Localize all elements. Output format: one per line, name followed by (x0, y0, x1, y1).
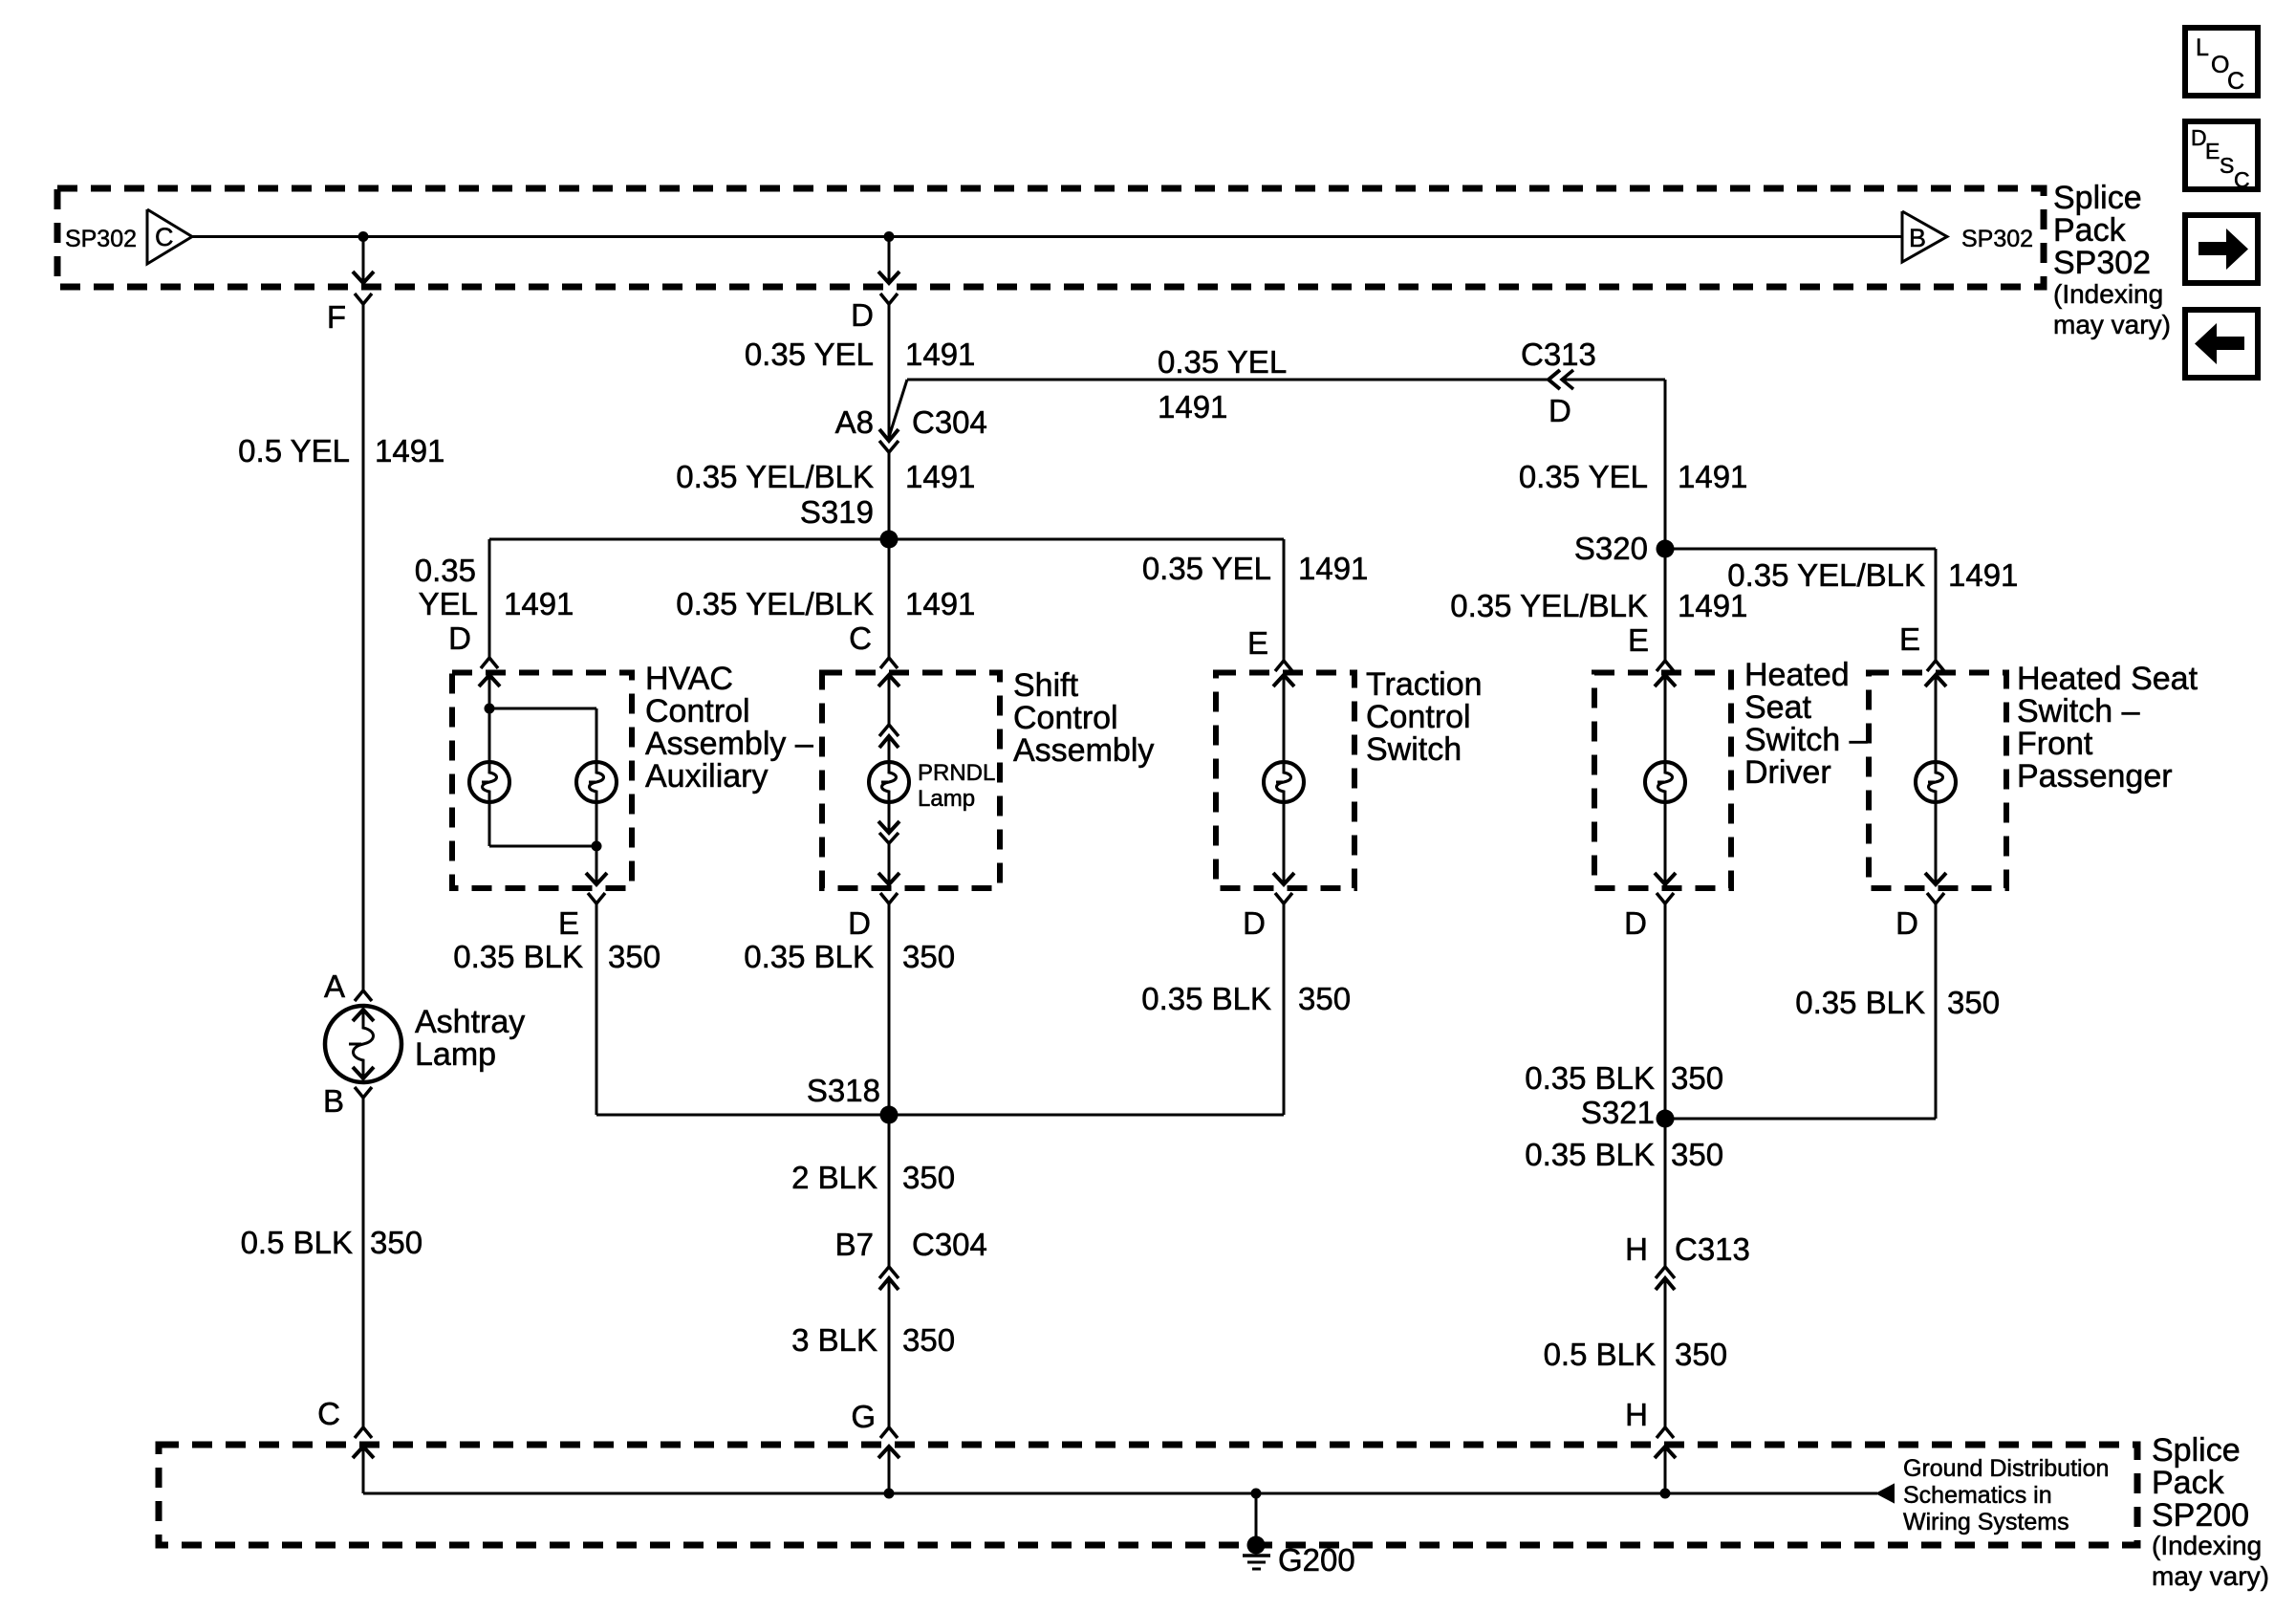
label 0.35 YEL 1491 HVAC (415, 553, 574, 621)
svg-text:1491: 1491 (905, 459, 975, 494)
node bus G200 junction (1251, 1489, 1262, 1499)
wire HVAC bottom bridge (489, 845, 596, 848)
svg-text:0.35 YEL/BLK: 0.35 YEL/BLK (676, 586, 874, 621)
svg-text:1491: 1491 (905, 337, 975, 372)
wire S320 to passenger (1665, 549, 1936, 661)
label 0.35 YEL 1491 traction (1142, 551, 1369, 586)
svg-text:0.35 BLK: 0.35 BLK (1525, 1060, 1655, 1096)
wire passenger D to S321 (1665, 903, 1936, 1119)
svg-text:Assembly: Assembly (1013, 732, 1154, 769)
pin D of SP302 (851, 294, 898, 333)
svg-text:Splice: Splice (2053, 180, 2142, 216)
label 0.35 YEL/BLK 1491 driver (1450, 588, 1747, 623)
svg-text:0.5 YEL: 0.5 YEL (238, 433, 350, 468)
wire SP302 stub to pin D (878, 236, 899, 283)
svg-text:350: 350 (1671, 1060, 1723, 1096)
svg-text:1491: 1491 (1298, 551, 1368, 586)
svg-text:D: D (851, 297, 874, 333)
svg-text:D: D (1549, 393, 1571, 428)
svg-text:G: G (851, 1399, 876, 1434)
svg-text:E: E (1247, 625, 1268, 661)
pin E of heated seat driver (1628, 622, 1674, 671)
svg-text:0.5 BLK: 0.5 BLK (241, 1225, 353, 1260)
svg-text:350: 350 (1947, 985, 2000, 1020)
svg-text:S318: S318 (807, 1073, 880, 1108)
svg-text:0.35 BLK: 0.35 BLK (1141, 981, 1271, 1016)
wire F 0.5 YEL 1491 (362, 304, 365, 991)
pin D of traction switch (1243, 893, 1292, 941)
label Heated Seat Switch - Driver (1744, 657, 1868, 791)
wire S321 0.35 BLK 350 (1664, 1119, 1667, 1267)
pin A of ashtray lamp (324, 969, 372, 1004)
wire SP200 stub H (1655, 1447, 1676, 1493)
splice S318 (807, 1073, 899, 1124)
splice pack SP200 dashed box (159, 1445, 2137, 1545)
node bus H junction (1660, 1489, 1671, 1499)
label 0.35 BLK 350 traction (1141, 981, 1351, 1016)
svg-text:A8: A8 (835, 404, 874, 440)
wire S320 drop 0.35 YEL 1491 (1664, 380, 1667, 549)
svg-text:B: B (323, 1083, 344, 1119)
wire S319 to HVAC D (488, 539, 491, 658)
wire S319 to traction E (1283, 539, 1286, 661)
lamp traction switch (1264, 675, 1304, 884)
svg-text:350: 350 (1675, 1337, 1727, 1372)
label 0.35 BLK 350 shift (744, 939, 955, 974)
label Heated Seat Switch - Front Passenger (2017, 661, 2199, 795)
svg-text:350: 350 (902, 1322, 955, 1358)
svg-text:Switch –: Switch – (1744, 722, 1868, 758)
node HVAC split (485, 704, 495, 714)
svg-text:D: D (448, 620, 471, 656)
wire SP200 stub C (353, 1447, 374, 1493)
wire HVAC top bridge (489, 708, 596, 710)
svg-text:S320: S320 (1574, 531, 1648, 566)
inline connector H C313 (1625, 1231, 1750, 1290)
svg-text:Auxiliary: Auxiliary (645, 758, 768, 795)
pin E of traction switch (1247, 625, 1292, 671)
wire shift D 0.35 BLK 350 (888, 903, 891, 1115)
node bus tap F (358, 231, 369, 242)
svg-text:0.35 YEL: 0.35 YEL (1519, 459, 1648, 494)
svg-text:C: C (2234, 167, 2250, 192)
wire S319 to shift C (888, 539, 891, 658)
svg-text:0.35 BLK: 0.35 BLK (744, 939, 874, 974)
svg-text:1491: 1491 (504, 586, 574, 621)
svg-text:E: E (1628, 622, 1649, 658)
wire branch C313 to S320 (1562, 380, 1665, 549)
arrow to ground distribution (1877, 1485, 1894, 1502)
label 0.35 YEL/BLK 1491 below S319 (676, 586, 975, 621)
inline connector shift lower (879, 833, 899, 843)
pin D of HVAC (448, 620, 498, 668)
svg-text:1491: 1491 (1948, 557, 2018, 593)
svg-text:Pack: Pack (2053, 212, 2127, 249)
svg-text:Splice: Splice (2152, 1432, 2241, 1469)
svg-text:Driver: Driver (1744, 754, 1831, 791)
wire D 0.35 YEL 1491 upper (888, 304, 891, 441)
svg-text:D: D (1243, 905, 1266, 941)
icon box back arrow (2185, 310, 2258, 378)
svg-text:C313: C313 (1675, 1231, 1750, 1267)
svg-text:Assembly –: Assembly – (645, 726, 813, 762)
wire shift below lamp (878, 802, 899, 833)
svg-text:Ground Distribution: Ground Distribution (1903, 1455, 2109, 1482)
icon box LOC (2185, 28, 2258, 96)
svg-text:SP302: SP302 (65, 226, 137, 252)
svg-text:SP200: SP200 (2152, 1497, 2249, 1534)
node HVAC join (592, 841, 602, 852)
svg-text:350: 350 (1298, 981, 1351, 1016)
svg-text:S: S (2220, 153, 2234, 178)
svg-text:0.5 BLK: 0.5 BLK (1544, 1337, 1656, 1372)
label HVAC Control Assembly - Auxiliary (645, 661, 813, 795)
svg-text:B7: B7 (835, 1227, 874, 1262)
svg-text:Pack: Pack (2152, 1465, 2225, 1501)
wire HVAC exit (586, 846, 607, 884)
pin H of SP200 (1625, 1397, 1674, 1438)
svg-text:Wiring Systems: Wiring Systems (1903, 1509, 2069, 1535)
label Traction Control Switch (1366, 666, 1483, 768)
pin D of heated seat passenger (1895, 893, 1944, 941)
pin D of heated seat driver (1624, 893, 1674, 941)
pin E of HVAC (558, 893, 605, 941)
svg-text:0.35 YEL: 0.35 YEL (1158, 344, 1287, 380)
svg-text:HVAC: HVAC (645, 661, 733, 697)
lamp PRNDL (869, 736, 909, 802)
wire shift entry (878, 675, 899, 725)
label 0.5 BLK 350 H (1544, 1337, 1727, 1372)
svg-text:S321: S321 (1581, 1095, 1655, 1130)
svg-text:C313: C313 (1521, 337, 1596, 372)
pin B of ashtray lamp (323, 1083, 372, 1119)
svg-text:Passenger: Passenger (2017, 758, 2173, 795)
svg-text:Control: Control (645, 693, 750, 729)
svg-text:Heated Seat: Heated Seat (2017, 661, 2199, 697)
label 0.35 BLK 350 HVAC (453, 939, 661, 974)
wire shift exit (878, 843, 899, 884)
svg-text:0.35 YEL: 0.35 YEL (1142, 551, 1271, 586)
svg-text:(Indexing: (Indexing (2152, 1531, 2262, 1560)
pin F of SP302 (327, 294, 372, 335)
svg-text:C: C (317, 1396, 340, 1431)
svg-text:0.35 YEL: 0.35 YEL (745, 337, 874, 372)
wire HVAC entry (479, 675, 500, 708)
svg-text:SP302: SP302 (2053, 245, 2151, 281)
splice S320 (1574, 531, 1675, 566)
svg-text:1491: 1491 (1158, 389, 1227, 425)
svg-text:C: C (849, 620, 872, 656)
wire HVAC E 0.35 BLK 350 (596, 903, 889, 1115)
svg-text:G200: G200 (1278, 1542, 1355, 1578)
wire 3 BLK 350 (888, 1278, 891, 1427)
svg-text:1491: 1491 (1678, 459, 1747, 494)
traction control switch dashed box (1216, 673, 1354, 889)
icon box DESC (2185, 121, 2258, 192)
svg-text:E: E (2205, 139, 2220, 163)
svg-text:H: H (1625, 1231, 1648, 1267)
svg-text:D: D (1624, 905, 1647, 941)
lamp HVAC left (469, 708, 509, 846)
svg-text:0.35 YEL/BLK: 0.35 YEL/BLK (1727, 557, 1925, 593)
svg-text:Switch: Switch (1366, 731, 1462, 768)
connector triangle SP302-B (1902, 211, 1947, 262)
svg-text:Heated: Heated (1744, 657, 1850, 693)
wire S319 horizontal (489, 538, 1284, 541)
splice S321 (1581, 1095, 1675, 1130)
svg-text:may vary): may vary) (2053, 310, 2171, 339)
svg-text:1491: 1491 (1678, 588, 1747, 623)
svg-text:350: 350 (1671, 1137, 1723, 1172)
label 0.35 YEL 1491 top (745, 337, 976, 372)
svg-text:may vary): may vary) (2152, 1561, 2269, 1591)
wire SP200 ground bus (363, 1492, 1877, 1495)
lamp heated seat driver (1645, 675, 1685, 884)
svg-text:Seat: Seat (1744, 689, 1811, 726)
label Ashtray Lamp (415, 1004, 525, 1073)
label PRNDL Lamp (918, 760, 995, 812)
wire SP200 stub G (878, 1447, 899, 1493)
label 0.35 YEL 1491 S320 (1519, 459, 1748, 494)
label Splice Pack SP200 (2152, 1432, 2269, 1591)
svg-text:350: 350 (902, 939, 955, 974)
svg-text:Control: Control (1366, 699, 1471, 735)
svg-text:350: 350 (902, 1160, 955, 1195)
svg-text:C304: C304 (912, 404, 987, 440)
label 0.35 YEL/BLK 1491 passenger (1727, 557, 2018, 593)
svg-text:0.35: 0.35 (415, 553, 476, 588)
svg-text:Switch –: Switch – (2017, 693, 2140, 729)
icon box forward arrow (2185, 215, 2258, 283)
label 0.5 BLK 350 (241, 1225, 422, 1260)
svg-text:0.35 YEL/BLK: 0.35 YEL/BLK (676, 459, 874, 494)
splice pack SP302 dashed box (57, 188, 2044, 287)
inline connector C313 pin D (1521, 337, 1596, 428)
svg-text:350: 350 (370, 1225, 422, 1260)
svg-text:0.35 BLK: 0.35 BLK (1525, 1137, 1655, 1172)
wire S318 2 BLK 350 (888, 1115, 891, 1267)
svg-text:3 BLK: 3 BLK (791, 1322, 877, 1358)
svg-text:D: D (1895, 905, 1918, 941)
wire traction D 0.35 BLK 350 (889, 903, 1284, 1115)
pin C of shift control (849, 620, 898, 668)
svg-text:E: E (1899, 621, 1920, 657)
wire S320 to driver E (1664, 549, 1667, 661)
label Splice Pack SP302 (2053, 180, 2171, 339)
label 0.5 YEL 1491 (238, 433, 444, 468)
svg-text:2 BLK: 2 BLK (791, 1160, 877, 1195)
label 0.35 BLK 350 below S321 (1525, 1137, 1723, 1172)
pin E of heated seat passenger (1899, 621, 1944, 671)
svg-text:E: E (558, 905, 579, 941)
pin G of SP200 (851, 1399, 898, 1438)
wire SP302 internal bus (192, 235, 1902, 238)
svg-text:Lamp: Lamp (415, 1036, 496, 1073)
inline connector inside shift (879, 736, 899, 748)
HVAC control assembly dashed box (452, 673, 632, 889)
svg-text:C: C (2227, 68, 2244, 95)
svg-text:C304: C304 (912, 1227, 987, 1262)
svg-text:PRNDL: PRNDL (918, 760, 995, 786)
heated seat switch driver dashed box (1594, 673, 1731, 889)
svg-text:D: D (848, 905, 871, 941)
wire B 0.5 BLK 350 (362, 1098, 365, 1427)
svg-text:C: C (155, 223, 174, 251)
wire G200 drop (1255, 1493, 1258, 1541)
pin D of shift control (848, 893, 898, 941)
svg-text:Control: Control (1013, 700, 1118, 736)
svg-text:S319: S319 (800, 494, 874, 530)
label 0.35 YEL/BLK 1491 above S319 (676, 459, 975, 494)
wire driver D to S321 (1664, 903, 1667, 1119)
wire branch to C313 (889, 380, 1549, 437)
svg-text:YEL: YEL (419, 586, 478, 621)
lamp HVAC right (576, 708, 617, 846)
wire H 0.5 BLK 350 (1664, 1278, 1667, 1427)
svg-text:1491: 1491 (375, 433, 444, 468)
lamp Ashtray Lamp (325, 1006, 401, 1082)
svg-text:Schematics in: Schematics in (1903, 1482, 2052, 1509)
label 0.35 YEL 1491 branch (1158, 344, 1287, 425)
svg-text:Front: Front (2017, 726, 2093, 762)
ground G200 (1243, 1536, 1355, 1578)
splice S319 (800, 494, 899, 549)
node bus G junction (884, 1489, 895, 1499)
pin C of SP200 (317, 1396, 372, 1438)
svg-text:L: L (2196, 34, 2209, 61)
svg-text:350: 350 (608, 939, 661, 974)
svg-text:SP302: SP302 (1961, 226, 2033, 252)
label 2 BLK 350 (791, 1160, 955, 1195)
lamp heated seat passenger (1916, 675, 1956, 884)
wire A8 0.35 YEL/BLK 1491 (888, 452, 891, 539)
label 3 BLK 350 (791, 1322, 955, 1358)
svg-text:F: F (327, 299, 346, 335)
svg-text:Shift: Shift (1013, 667, 1079, 704)
svg-text:0.35 BLK: 0.35 BLK (1795, 985, 1925, 1020)
svg-text:A: A (324, 969, 345, 1004)
connector triangle SP302-C (147, 209, 192, 264)
inline connector B7 C304 (835, 1227, 987, 1290)
svg-text:Ashtray: Ashtray (415, 1004, 525, 1040)
svg-text:1491: 1491 (905, 586, 975, 621)
svg-text:0.35 BLK: 0.35 BLK (453, 939, 583, 974)
label 0.35 BLK 350 driver (1525, 1060, 1723, 1096)
wire SP302 stub to pin F (353, 236, 374, 283)
label Ground Distribution Schematics in Wiring Systems (1903, 1455, 2109, 1535)
svg-text:Lamp: Lamp (918, 786, 975, 812)
svg-text:B: B (1909, 224, 1926, 252)
svg-text:Traction: Traction (1366, 666, 1483, 703)
inline connector A8 C304 (835, 404, 987, 452)
label 0.35 BLK 350 passenger (1795, 985, 2000, 1020)
heated seat switch passenger dashed box (1869, 673, 2006, 889)
shift control assembly dashed box (822, 673, 1000, 889)
label Shift Control Assembly (1013, 667, 1154, 769)
svg-text:0.35 YEL/BLK: 0.35 YEL/BLK (1450, 588, 1648, 623)
svg-text:(Indexing: (Indexing (2053, 279, 2163, 309)
svg-text:H: H (1625, 1397, 1648, 1432)
node bus tap D (884, 231, 895, 242)
